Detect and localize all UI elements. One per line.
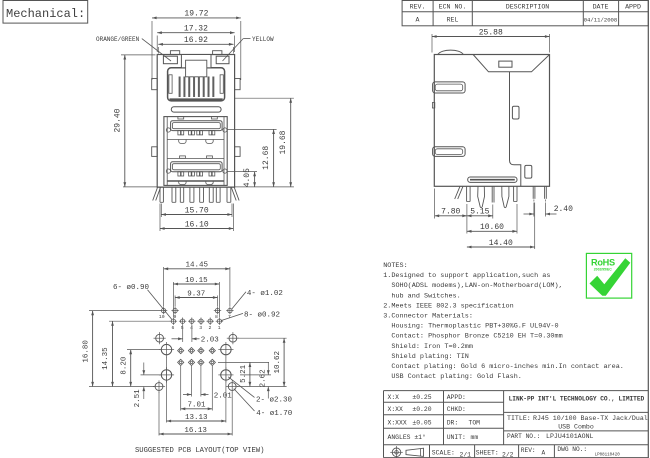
front side ear bottom-left: [152, 147, 158, 157]
svg-text:8- ø0.92: 8- ø0.92: [244, 312, 280, 320]
frame right border: [647, 0, 649, 458]
dimension 9.37: [174, 296, 176, 307]
dimension 8.20: [127, 349, 161, 351]
dimension 16.80: [89, 310, 161, 312]
svg-text:SUGGESTED PCB LAYOUT(TOP VIEW): SUGGESTED PCB LAYOUT(TOP VIEW): [135, 447, 264, 455]
front view pins: [153, 187, 239, 202]
svg-text:ECN NO.: ECN NO.: [439, 4, 467, 11]
svg-text:2002/95/EC: 2002/95/EC: [594, 268, 612, 272]
dimension 7.80: [434, 189, 436, 219]
side view inner contour: [510, 72, 521, 187]
svg-text:CHKD:: CHKD:: [447, 406, 466, 413]
dimension 5.21: [218, 361, 269, 363]
svg-text:Contact plating: Gold 6 micro-: Contact plating: Gold 6 micro-inches min…: [391, 363, 624, 371]
svg-text:RJ45 10/100 Base-TX Jack/Dual: RJ45 10/100 Base-TX Jack/Dual: [533, 415, 648, 422]
svg-text:TOM: TOM: [469, 419, 481, 426]
svg-text:RoHS: RoHS: [591, 258, 615, 268]
svg-text:12.68: 12.68: [262, 146, 271, 170]
dimension 14.35: [109, 320, 170, 322]
svg-text:2.01: 2.01: [214, 393, 233, 401]
svg-text:A: A: [416, 17, 420, 24]
svg-text:2/1: 2/1: [460, 452, 472, 458]
pcb usb holes: [178, 348, 216, 366]
dimension 16.13: [158, 392, 160, 436]
RJ45 contact pins: [179, 77, 181, 98]
svg-text:04/11/2008: 04/11/2008: [584, 16, 618, 23]
svg-text:DWG NO.:: DWG NO.:: [557, 446, 587, 453]
svg-text:16.10: 16.10: [185, 220, 209, 229]
dimension 13.13: [166, 357, 168, 423]
svg-text:10.15: 10.15: [185, 277, 208, 285]
dimension 16.92: [157, 47, 159, 54]
dimension 25.88: [431, 34, 433, 53]
svg-text:2.Meets IEEE 802.3 specificati: 2.Meets IEEE 802.3 specification: [383, 302, 514, 310]
dimension 29.40: [121, 54, 156, 56]
pcb hole row2 (6..1): [170, 318, 223, 325]
notes text: [383, 262, 624, 381]
pcb hole row1 (10,9,8,7): [160, 307, 234, 314]
LED window left: [163, 56, 177, 64]
dimension 14.40: [534, 203, 536, 250]
projection symbol: [390, 446, 423, 458]
dimension 14.45: [163, 267, 165, 307]
svg-text:Shield plating: TIN: Shield plating: TIN: [391, 353, 469, 361]
front side ear bottom-right: [235, 147, 241, 157]
svg-text:SOHO(ADSL modems),LAN-on-Mothe: SOHO(ADSL modems),LAN-on-Motherboard(LOM…: [391, 282, 562, 290]
dimension 5.15: [492, 205, 494, 219]
USB housing box: [164, 117, 227, 186]
svg-text:Shield: Iron T=0.2mm: Shield: Iron T=0.2mm: [391, 343, 473, 351]
svg-text:±0.20: ±0.20: [412, 406, 431, 413]
svg-text:6- ø0.90: 6- ø0.90: [113, 284, 150, 292]
pcb small holes phi1.70: [156, 334, 164, 342]
svg-text:2- ø2.30: 2- ø2.30: [256, 396, 293, 404]
svg-text:YELLOW: YELLOW: [252, 36, 274, 43]
dimension 12.68: [227, 128, 277, 130]
dimension 16.10: [159, 204, 161, 232]
svg-text:6: 6: [171, 325, 174, 331]
svg-text:19.72: 19.72: [184, 10, 208, 19]
side view latch window: [499, 61, 512, 67]
side view top recess: [473, 55, 549, 72]
svg-text:17.32: 17.32: [184, 25, 208, 34]
dimension 2.51: [141, 374, 161, 376]
front view top bumps: [170, 51, 179, 55]
svg-text:ANGLES ±1°: ANGLES ±1°: [388, 433, 426, 441]
svg-text:10: 10: [159, 314, 165, 320]
RJ45 opening: [168, 68, 225, 101]
svg-text:2/2: 2/2: [502, 452, 514, 458]
svg-text:PART NO.:: PART NO.:: [507, 433, 540, 440]
dimension 17.32: [156, 36, 158, 53]
svg-text:10.60: 10.60: [480, 223, 504, 232]
svg-text:16.13: 16.13: [184, 427, 207, 435]
dimension 2.01: [191, 366, 193, 397]
svg-text:Contact: Phosphor Bronze C5210: Contact: Phosphor Bronze C5210 EH T=0.30…: [391, 333, 562, 341]
latch slot: [171, 107, 221, 112]
svg-text:TITLE:: TITLE:: [507, 415, 531, 422]
svg-text:X:X: X:X: [388, 394, 400, 401]
svg-text:7.80: 7.80: [441, 208, 460, 217]
svg-text:1: 1: [218, 325, 221, 331]
svg-text:10.62: 10.62: [274, 351, 282, 374]
svg-text:NOTES:: NOTES:: [383, 262, 407, 270]
svg-text:3: 3: [199, 325, 202, 331]
front side ear top-right: [235, 79, 241, 90]
svg-text:2.40: 2.40: [554, 205, 573, 214]
scale sheet rev dwg texts: [432, 446, 620, 458]
svg-text:4.05: 4.05: [243, 168, 252, 187]
svg-text:LP08110420: LP08110420: [595, 454, 621, 458]
svg-text:DATE: DATE: [593, 4, 609, 11]
svg-text:±0.05: ±0.05: [412, 419, 431, 426]
USB port: [166, 117, 227, 144]
side view pins: [455, 186, 547, 207]
svg-text:2.51: 2.51: [134, 389, 142, 408]
title block tolerance texts: [388, 394, 432, 441]
USB mid divider: [167, 157, 224, 159]
svg-text:hub and Switches.: hub and Switches.: [391, 292, 460, 300]
front side ear top-left: [152, 79, 158, 90]
dimension 2.03: [182, 325, 184, 342]
svg-text:LPJU4101AONL: LPJU4101AONL: [546, 433, 594, 440]
svg-text:Mechanical:: Mechanical:: [6, 7, 85, 21]
svg-text:13.13: 13.13: [185, 414, 208, 422]
USB box inner bottom: [167, 180, 224, 182]
leader ORANGE/GREEN: [142, 39, 171, 61]
side view pin hole detail: [525, 165, 532, 178]
leader YELLOW: [243, 38, 250, 40]
svg-text:2.03: 2.03: [201, 337, 220, 345]
dimension 2.40: [533, 203, 535, 217]
svg-text:16.92: 16.92: [184, 36, 208, 45]
svg-text:8.20: 8.20: [120, 356, 128, 375]
svg-text:SHEET:: SHEET:: [476, 450, 499, 457]
front view body: [157, 55, 234, 188]
dimension 10.60: [516, 204, 518, 234]
svg-text:5.15: 5.15: [470, 208, 489, 217]
front bottom reference line: [123, 186, 294, 188]
side view left notch: [432, 103, 434, 109]
svg-text:9.37: 9.37: [187, 290, 205, 298]
svg-text:REL: REL: [447, 17, 459, 24]
RJ45 latch tab: [181, 55, 211, 68]
svg-text:Housing: Thermoplastic PBT+30%: Housing: Thermoplastic PBT+30%G.F UL94V-…: [391, 323, 558, 331]
svg-text:A: A: [542, 450, 546, 457]
svg-text:4- ø1.70: 4- ø1.70: [256, 410, 293, 418]
svg-text:APPD:: APPD:: [447, 394, 466, 401]
svg-text:16.80: 16.80: [82, 340, 90, 363]
svg-text:8: 8: [215, 314, 218, 320]
svg-text:15.70: 15.70: [185, 206, 209, 215]
svg-text:19.68: 19.68: [279, 130, 288, 154]
svg-text:25.88: 25.88: [479, 28, 503, 37]
svg-text:5.21: 5.21: [240, 364, 248, 383]
svg-text:LINK-PP INT'L TECHNOLOGY CO.,: LINK-PP INT'L TECHNOLOGY CO., LIMITED: [509, 395, 645, 402]
side view latch arc: [438, 50, 464, 54]
dimension 4.05: [227, 171, 257, 173]
svg-text:29.40: 29.40: [114, 108, 123, 132]
svg-text:7.01: 7.01: [187, 402, 206, 410]
svg-text:mm: mm: [471, 434, 479, 441]
dimension 19.68: [235, 97, 294, 99]
svg-text:DR:: DR:: [447, 419, 459, 426]
svg-text:SCALE:: SCALE:: [432, 450, 455, 457]
svg-text:REV.: REV.: [410, 4, 426, 11]
USB port: [166, 156, 227, 185]
svg-text:3.Connector Materials:: 3.Connector Materials:: [383, 313, 473, 321]
svg-text:1.Designed to support applicat: 1.Designed to support application,such a…: [383, 272, 550, 280]
dimension 7.01: [180, 366, 182, 411]
side view spring tab upper: [433, 82, 466, 93]
svg-text:X:XXX: X:XXX: [388, 419, 407, 426]
svg-text:4: 4: [190, 325, 193, 331]
side view tongue bar: [468, 177, 517, 182]
RJ45 side tabs inside opening: [169, 75, 172, 94]
svg-text:ORANGE/GREEN: ORANGE/GREEN: [96, 36, 140, 43]
svg-text:5: 5: [181, 325, 184, 331]
svg-text:USB Combo: USB Combo: [558, 424, 594, 431]
title block approval texts: [447, 394, 480, 441]
svg-text:UNIT:: UNIT:: [447, 434, 466, 441]
svg-text:14.35: 14.35: [102, 347, 110, 370]
svg-text:±0.25: ±0.25: [412, 394, 431, 401]
dimension 10.15: [172, 282, 174, 317]
svg-text:4- ø1.02: 4- ø1.02: [247, 290, 283, 298]
svg-text:14.40: 14.40: [489, 239, 513, 248]
svg-text:14.45: 14.45: [185, 262, 208, 270]
svg-text:X:XX: X:XX: [388, 406, 404, 413]
RoHS logo: [586, 253, 631, 298]
dimension 19.72: [151, 21, 153, 80]
pcb right bottom reference: [237, 386, 287, 388]
dimension 10.62: [238, 337, 287, 339]
revision table: [402, 1, 648, 26]
LED window right: [216, 56, 229, 64]
side view middle window: [512, 106, 519, 119]
pcb big holes phi2.30: [161, 344, 171, 354]
side view body: [434, 55, 549, 187]
svg-text:DESCRIPTION: DESCRIPTION: [506, 4, 550, 11]
svg-text:REV:: REV:: [521, 447, 536, 454]
title box 'Mechanical:': [3, 1, 88, 24]
title block: [384, 391, 649, 458]
side view spring tab lower: [433, 147, 466, 157]
svg-text:2: 2: [208, 325, 211, 331]
dimension 15.70: [160, 204, 162, 218]
svg-text:APPD: APPD: [625, 4, 641, 11]
svg-text:2.62: 2.62: [259, 369, 267, 387]
dimension 2.62: [240, 374, 271, 376]
svg-text:USB Contact plating: Gold Flas: USB Contact plating: Gold Flash.: [391, 373, 522, 381]
